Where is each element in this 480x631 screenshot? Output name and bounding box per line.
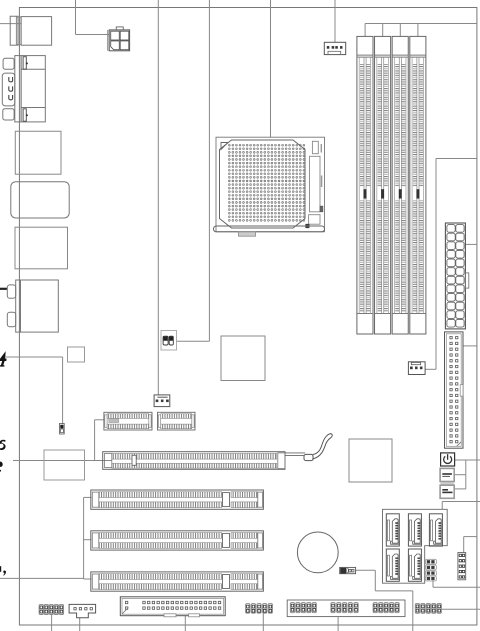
onboard power button [441, 453, 455, 466]
bottom-right header USB78 [415, 603, 441, 613]
super I/O chip [68, 347, 85, 362]
wire callout bottom jumper [51, 615, 53, 631]
southbridge chip [349, 439, 392, 482]
wire callout panel header [337, 617, 339, 631]
PCIe x1 slot [158, 412, 196, 430]
PWR LED block [440, 468, 454, 481]
CPU socket 939 [216, 137, 325, 232]
northbridge chip [221, 336, 265, 381]
wire callout SATA jumpers [433, 580, 480, 587]
floppy connector FLOPPY [120, 597, 225, 617]
PCI slot 3 [91, 572, 264, 591]
PWR_FAN connector [154, 395, 170, 407]
wire callout PCIe x16 label [13, 420, 112, 461]
DIMM slot 2 [375, 36, 391, 334]
SATA RAID jumpers [426, 559, 437, 581]
IDE connector PRI_IDE [445, 332, 464, 448]
wire callout DIMM slots [365, 24, 477, 37]
PS/2 connector block [10, 16, 51, 45]
SATA connectors SATA1-SATA5 [383, 509, 448, 583]
wire callout ATX12V [76, 0, 110, 35]
DIMM slot 1 [357, 36, 373, 334]
wire callout USB header [464, 537, 477, 553]
bottom-left jumper block [39, 604, 64, 614]
wire callout CHA_FAN [425, 159, 477, 370]
wire callout IDE [463, 345, 477, 347]
PCIe x4 slot [104, 412, 152, 430]
wire callout CPU socket [270, 0, 272, 137]
wire callout USB jumper box [177, 0, 210, 341]
USB device wake-up jumper box [161, 331, 177, 351]
CHA_FAN connector [408, 362, 425, 375]
USB ports block [11, 182, 69, 218]
wire callout CD-in [79, 618, 81, 631]
ATX12V 4-pin power connector EATX12V [108, 27, 130, 51]
USB56 pin header [458, 553, 466, 580]
wire callout label4 to jumper [6, 357, 63, 424]
wire callout audio jack [0, 288, 8, 290]
wire callout PS2 label [0, 23, 21, 25]
CPU_FAN connector [324, 42, 345, 54]
SB PWR LED block [440, 485, 454, 498]
PCI slot 2 [91, 531, 264, 550]
wire callout mid bottom header [262, 613, 264, 631]
LAN connector block [15, 131, 61, 174]
wire callout ATX24 power [465, 243, 477, 245]
PCI slot 1 [91, 490, 264, 509]
DIMM slot 4 [410, 36, 426, 334]
audio jacks block [7, 280, 58, 332]
wire callout CPU_FAN [334, 0, 336, 42]
cropped label text fragments [0, 351, 7, 575]
ATX 24-pin power connector EATXPWR [445, 223, 468, 329]
wire callout PCI slots label [0, 497, 92, 579]
wire callout PWR_FAN [157, 0, 159, 395]
CPU socket lever bar [214, 226, 325, 236]
PCIe x16 retention latch [285, 434, 332, 461]
wire callout bottom right header [442, 608, 480, 610]
CD audio-in connector CD [69, 604, 96, 617]
wire callout floppy [184, 616, 186, 631]
CMOS battery [297, 532, 338, 573]
wire callout speaker [356, 570, 413, 631]
front panel header box [287, 600, 405, 617]
parallel port block [15, 227, 68, 269]
voltage regulator chip [44, 450, 85, 480]
wire callout SATA group [442, 502, 480, 510]
speaker buzzer [340, 567, 356, 573]
DIMM slot 3 [392, 36, 408, 334]
mid bottom header GAME [246, 604, 273, 614]
keyboard power jumper KBPWR [60, 424, 65, 435]
wire callout power button [454, 460, 480, 489]
PCIe x16 slot [103, 452, 285, 470]
VGA/COM connector block [2, 56, 45, 122]
hatch strip between LED blocks [441, 482, 454, 485]
